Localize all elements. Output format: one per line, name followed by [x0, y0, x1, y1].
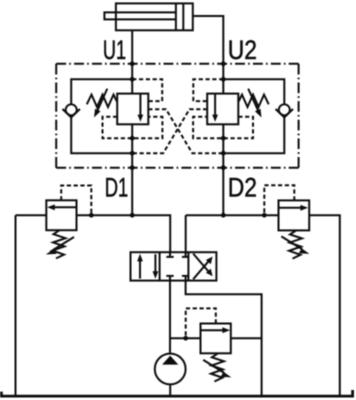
counterbalance valve V1 spring	[87, 95, 117, 107]
node D2 tee	[221, 213, 226, 218]
counterbalance valve V1 flow arrow	[138, 94, 144, 122]
relief valve RV2 body	[279, 200, 310, 230]
directional valve DV1 dividers	[160, 252, 189, 280]
check valve CV2	[276, 104, 293, 117]
relief valve RV1 spring	[53, 230, 66, 258]
node D2 border junction	[221, 165, 226, 170]
wire cylinder rod-end to U2	[193, 16, 224, 64]
directional valve DV1 right box crossed arrows	[193, 254, 212, 280]
relief valve RV1 flow arrow	[47, 204, 76, 210]
relief valve RV2 flow arrow	[279, 205, 308, 211]
relief valve RV2 spring	[289, 230, 302, 258]
wire check branch left lower	[71, 117, 132, 153]
cylinder C1 body	[116, 3, 193, 30]
pilot line V2 internal (dashed box)	[193, 117, 253, 138]
pilot line RV3 (dashed)	[186, 308, 216, 338]
pump P1	[155, 354, 186, 385]
relief valve RV1 adjust arrow	[46, 237, 74, 255]
pilot line V2 upper (dashed)	[193, 79, 223, 101]
pilot line RV1 (dashed)	[61, 186, 91, 216]
check valve CV1	[63, 104, 80, 117]
node RV1 pilot junction	[89, 213, 94, 218]
svg-text:D1: D1	[105, 172, 129, 202]
relief valve RV3 spring	[211, 353, 224, 381]
wire D1 horizontal rail	[16, 215, 171, 252]
wire check branch right upper	[223, 79, 284, 104]
svg-text:U2: U2	[228, 35, 257, 65]
manifold enclosure (dash-dot box)	[56, 64, 298, 168]
wire RV3 outlet to tank rail	[231, 337, 262, 339]
wire cylinder cap-end to U1	[131, 30, 133, 64]
node RV2 pilot junction	[262, 213, 267, 218]
wire valve port B riser	[185, 215, 187, 252]
counterbalance valve V2 body	[207, 94, 238, 125]
node right lower junction	[221, 151, 226, 156]
wire tank line	[1, 390, 352, 396]
relief valve RV3 adjust arrow	[203, 360, 231, 378]
node right upper junction	[221, 77, 226, 82]
directional valve DV1 center box blocked ports	[166, 252, 189, 280]
counterbalance valve V2 spring	[239, 95, 269, 107]
node left upper junction	[130, 77, 135, 82]
counterbalance valve V2 adjust arrow	[248, 89, 261, 118]
relief valve RV3 body	[201, 324, 231, 354]
counterbalance valve V2 flow arrow	[212, 94, 218, 122]
wire valve P port to pump	[169, 281, 171, 354]
pilot line V1 upper (dashed)	[132, 79, 162, 101]
pilot line V2 crossed to D1 (dashed)	[132, 109, 207, 153]
node V1 pilot junction	[130, 136, 135, 141]
directional valve DV1 body	[131, 252, 217, 280]
directional valve DV1 left box arrows	[137, 254, 158, 279]
wire D2 horizontal rail	[186, 215, 340, 396]
wire U2-D2 main line	[222, 64, 224, 215]
wire check branch right lower	[223, 117, 284, 153]
pilot line RV2 (dashed)	[264, 185, 294, 215]
node D1 border junction	[130, 165, 135, 170]
wire U1-D1 main line	[131, 64, 133, 215]
relief valve RV2 adjust arrow	[281, 236, 309, 254]
counterbalance valve V1 body	[117, 94, 148, 125]
cylinder C1 piston	[176, 3, 183, 30]
node RV3 pilot junction	[183, 336, 188, 341]
svg-text:D2: D2	[228, 172, 257, 202]
relief valve RV3 flow arrow	[201, 327, 230, 333]
node D1 tee	[130, 213, 135, 218]
relief valve RV1 body	[46, 200, 76, 230]
node U1 border junction	[130, 61, 135, 66]
wire check branch left upper	[71, 79, 132, 104]
wire pump suction	[169, 384, 171, 396]
counterbalance valve V1 adjust arrow	[94, 89, 107, 118]
cylinder C1 rod	[104, 12, 175, 19]
svg-text:U1: U1	[103, 35, 126, 65]
node V2 pilot junction	[221, 136, 226, 141]
wire pump branch to relief RV3	[170, 337, 201, 339]
node U2 border junction	[221, 61, 226, 66]
wire valve T port to tank rail	[186, 281, 262, 397]
pilot line V1 internal (dashed box)	[103, 117, 163, 138]
node left lower junction	[130, 151, 135, 156]
pilot line V1 crossed to D2 (dashed)	[148, 109, 223, 153]
wire left tank rail	[15, 215, 17, 396]
